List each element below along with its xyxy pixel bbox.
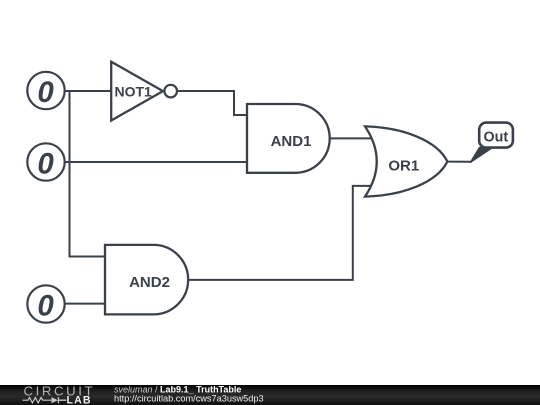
and-gate AND1 — [247, 104, 330, 173]
svg-text:Out: Out — [483, 129, 508, 145]
output flag Out box — [479, 123, 513, 148]
svg-text:0: 0 — [37, 289, 54, 322]
input I2 value 0 — [27, 143, 64, 180]
or-gate OR1 — [365, 126, 447, 196]
svg-text:http://circuitlab.com/cws7a3us: http://circuitlab.com/cws7a3usw5dp3 — [114, 394, 264, 404]
wire OR1 output to Out flag — [446, 161, 472, 163]
svg-text:0: 0 — [37, 76, 54, 109]
wire input3 to AND2 bottom input — [63, 303, 106, 305]
svg-text:AND2: AND2 — [129, 274, 170, 291]
svg-text:OR1: OR1 — [388, 158, 419, 175]
wire AND1 output to OR1 top input — [329, 137, 374, 139]
inverter NOT1 — [111, 62, 177, 121]
svg-text:AND1: AND1 — [271, 133, 312, 150]
input I3 value 0 — [27, 285, 64, 322]
and-gate AND2 — [105, 245, 188, 315]
wire node A vertical down to AND2 top input — [70, 91, 107, 257]
wire AND2 output to OR1 bottom input — [187, 186, 374, 280]
svg-text:0: 0 — [37, 147, 54, 180]
wire input1 to NOT1 — [63, 90, 112, 92]
footer bar — [0, 385, 540, 405]
svg-text:NOT1: NOT1 — [115, 84, 153, 100]
svg-text:LAB: LAB — [67, 394, 92, 405]
wire input2 to AND1 bottom input — [63, 161, 248, 163]
input I1 value 0 — [27, 72, 64, 109]
wire NOT1 output to AND1 top input — [177, 91, 248, 115]
output flag Out pointer — [471, 148, 493, 163]
logo resistor-diode symbol — [23, 398, 52, 403]
